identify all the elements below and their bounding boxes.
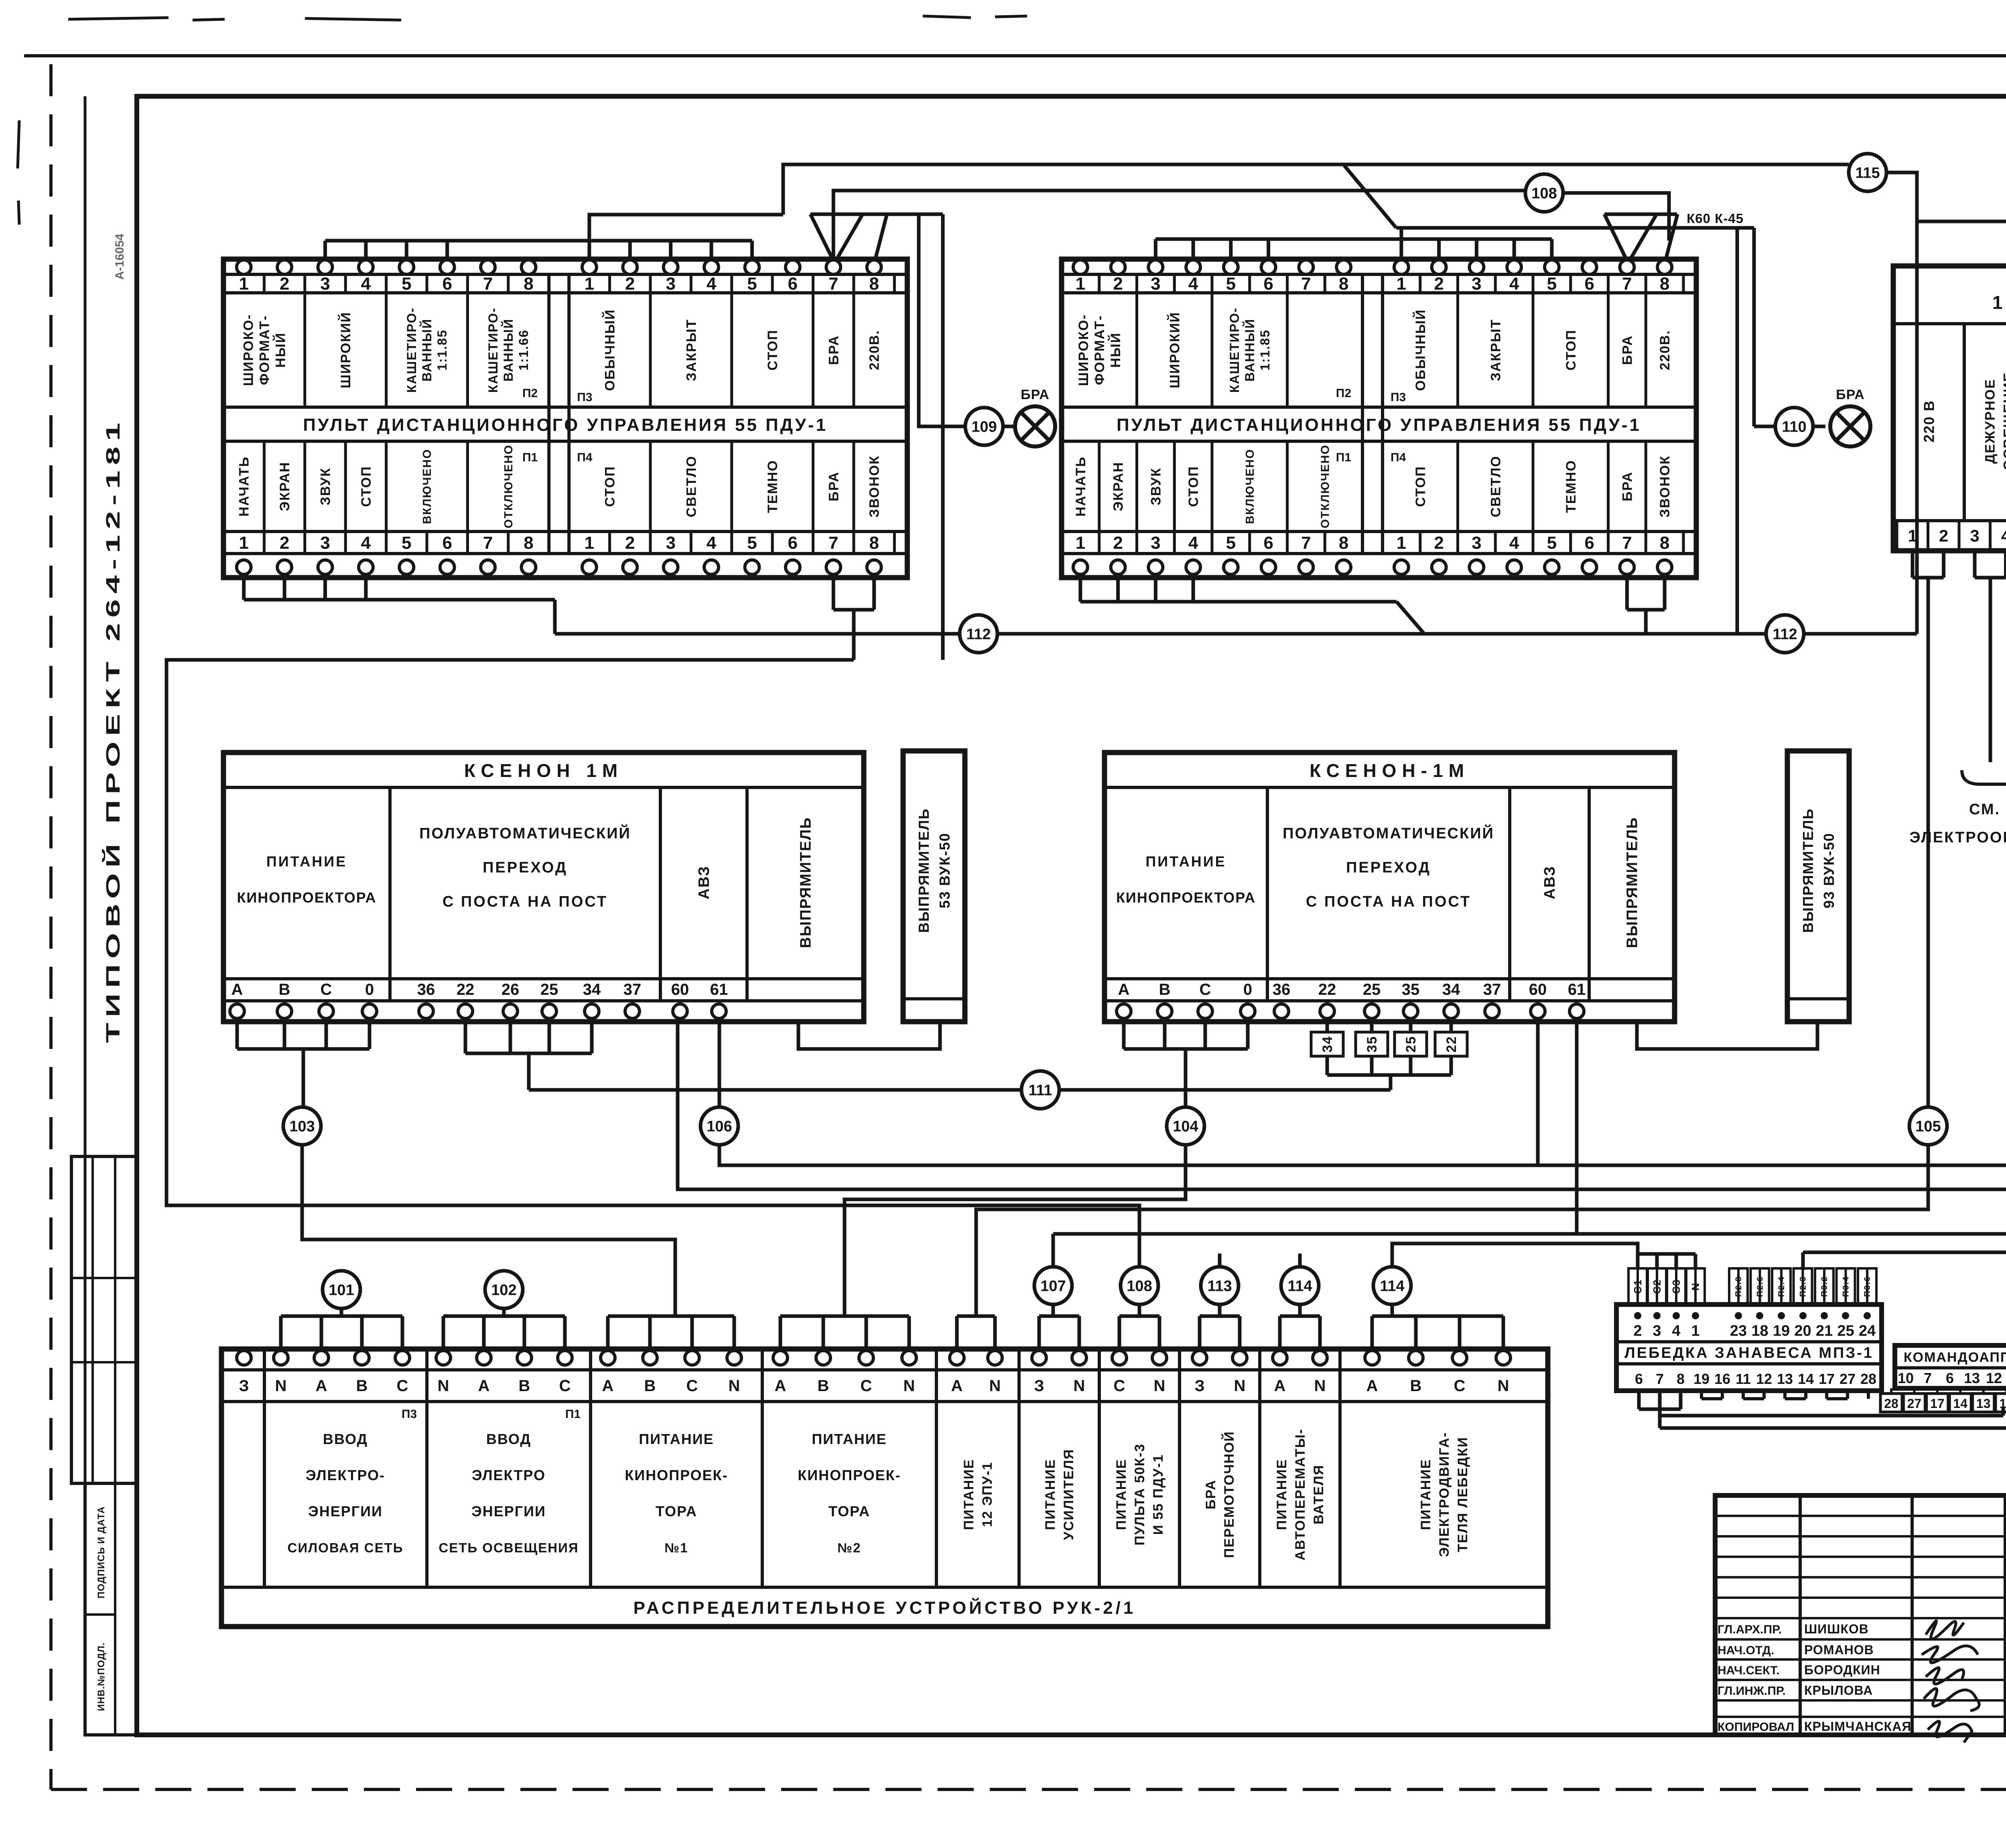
svg-text:28: 28 [1884,1396,1898,1411]
svg-text:КАШЕТИРО-: КАШЕТИРО- [404,307,419,393]
bus drop [405,241,408,262]
svg-text:6: 6 [1263,533,1273,553]
cable funnel PDU1 [810,214,833,261]
svg-text:ВЫПРЯМИТЕЛЬ: ВЫПРЯМИТЕЛЬ [916,808,932,933]
svg-text:АВЗ: АВЗ [696,866,713,899]
svg-text:ЭЛЕКТРО: ЭЛЕКТРО [472,1467,546,1483]
svg-text:25: 25 [1363,981,1381,998]
svg-text:1: 1 [239,533,248,553]
wire rectifier link 2 [1637,1022,1817,1049]
svg-text:3: 3 [666,274,675,294]
svg-text:ПИТАНИЕ: ПИТАНИЕ [1145,853,1226,870]
node 114 [1373,1267,1411,1304]
PDU1 bottom labels [237,456,252,516]
RUK bracket section 10 / 114 [1370,1316,1374,1351]
svg-text:ВАННЫЙ: ВАННЫЙ [1243,318,1257,381]
svg-text:19: 19 [1693,1371,1710,1387]
wire to command app 1 [1660,1414,2003,1418]
svg-text:3: 3 [320,533,330,553]
svg-text:КИНОПРОЕКТОРА: КИНОПРОЕКТОРА [237,889,376,906]
svg-text:БРА: БРА [1620,471,1635,501]
PDU2 cell separators [1098,274,1100,293]
svg-text:ТИПОВОЙ ПРОЕКТ 264-12-181: ТИПОВОЙ ПРОЕКТ 264-12-181 [102,417,124,1043]
stub [1116,578,1120,602]
svg-text:ПУЛЬТ ДИСТАНЦИОННОГО УПРАВЛЕ: ПУЛЬТ ДИСТАНЦИОННОГО УПРАВЛЕНИЯ 55 ПДУ-1 [1117,415,1641,435]
svg-text:18: 18 [1751,1323,1768,1339]
svg-text:С ПОСТА НА ПОСТ: С ПОСТА НА ПОСТ [443,893,608,910]
svg-text:34: 34 [1442,981,1460,998]
svg-text:N: N [729,1377,740,1395]
svg-text:34: 34 [1320,1036,1335,1053]
svg-text:C: C [686,1377,698,1395]
wire bracket A B C 0 ksenon2 [1122,1018,1126,1049]
node 114 [1281,1267,1319,1304]
wire PDU1 right flank to bottom bus [941,214,945,660]
svg-text:КИНОПРОЕК-: КИНОПРОЕК- [798,1467,901,1483]
bracket PDU2 bottom bra terminals [1625,578,1629,610]
svg-text:СТОП: СТОП [1186,466,1201,507]
wire down to lamp 110 [1752,228,1756,426]
node 107 [1034,1267,1072,1304]
RUK bracket section 6 / 107 [1038,1316,1041,1351]
wire drop to P2.3 label [1801,1252,1805,1270]
svg-text:ВАННЫЙ: ВАННЫЙ [501,318,516,381]
svg-text:4: 4 [707,533,717,553]
svg-text:П3: П3 [402,1408,417,1421]
svg-text:2: 2 [280,274,289,294]
svg-text:5: 5 [1226,533,1236,553]
svg-text:22: 22 [1318,981,1336,998]
svg-text:C: C [559,1377,571,1395]
winch bottom wires [1637,1391,1641,1409]
svg-text:112: 112 [966,626,991,643]
wire break slash [1344,165,1396,228]
svg-text:A: A [1366,1377,1378,1395]
margin table A [71,1156,137,1483]
svg-text:ПУЛЬТ ДИСТАНЦИОННОГО УПРАВЛЕ: ПУЛЬТ ДИСТАНЦИОННОГО УПРАВЛЕНИЯ 55 ПДУ-1 [303,415,828,435]
svg-text:21: 21 [1816,1323,1833,1339]
svg-text:1: 1 [585,274,594,294]
wire 111 run [529,1088,1391,1092]
PDU2 bottom labels [1073,456,1088,516]
projector unit КСЕНОН 1М outline [223,753,864,1022]
svg-text:101: 101 [329,1282,354,1298]
PDU1 cell separators [263,274,266,293]
svg-text:З: З [239,1377,249,1395]
svg-text:ЭЛЕКТРООБОРУДОВАНИЯ: ЭЛЕКТРООБОРУДОВАНИЯ [1909,829,2006,846]
svg-text:ПЕРЕХОД: ПЕРЕХОД [1346,859,1431,876]
node 104 [1167,1107,1204,1145]
svg-text:П1: П1 [1336,451,1351,464]
brace see electrical project [1962,770,2006,796]
svg-text:0: 0 [1243,981,1252,998]
svg-text:П2: П2 [1336,387,1351,400]
svg-text:ТЕМНО: ТЕМНО [1563,460,1579,513]
svg-text:БРА: БРА [1203,1479,1218,1509]
svg-text:ШИШКОВ: ШИШКОВ [1804,1622,1869,1636]
svg-text:БОРОДКИН: БОРОДКИН [1804,1663,1880,1677]
svg-text:ЭКРАН: ЭКРАН [277,462,292,511]
svg-text:ВВОД: ВВОД [486,1431,531,1447]
svg-text:112: 112 [1773,626,1797,643]
svg-text:8: 8 [524,274,533,294]
svg-text:5: 5 [747,533,757,553]
svg-text:ОСВЕЩЕНИЕ: ОСВЕЩЕНИЕ [2001,372,2006,470]
PDU2 bottom terminal circles [1073,560,1088,574]
bus drop [445,241,449,262]
svg-text:19: 19 [1773,1323,1790,1339]
bracket PDU1 bottom bra terminals [832,578,835,610]
svg-text:ЗВУК: ЗВУК [1148,467,1163,505]
node 113 [1201,1267,1239,1304]
RUK bracket section 7 / 108 [1118,1316,1121,1351]
svg-text:60: 60 [1529,981,1547,998]
bus drop [1192,239,1195,262]
wire ksenon2 t61 / 107 feed [1577,1018,2006,1274]
wire bracket A B C 0 ksenon1 [236,1018,239,1049]
svg-text:A: A [775,1377,786,1395]
svg-text:4: 4 [1672,1323,1680,1339]
svg-text:НЫЙ: НЫЙ [1108,332,1123,367]
stub [323,578,327,600]
svg-text:8: 8 [524,533,533,553]
bus drop [1513,239,1516,262]
svg-text:ПУЛЬТА 50К-3: ПУЛЬТА 50К-3 [1132,1443,1147,1546]
RUK bracket section 8 / 113 [1198,1316,1202,1351]
svg-text:ЭЛЕКТРОДВИГА-: ЭЛЕКТРОДВИГА- [1437,1432,1452,1557]
wire to lamp 109 [919,214,965,426]
svg-text:А: А [951,1377,963,1395]
svg-text:ВКЛЮЧЕНО: ВКЛЮЧЕНО [421,449,434,524]
svg-text:N: N [1074,1377,1085,1395]
svg-text:ЭНЕРГИИ: ЭНЕРГИИ [308,1503,383,1519]
bus drop [628,241,632,262]
svg-text:ВВОД: ВВОД [323,1431,368,1447]
svg-text:12 ЭПУ-1: 12 ЭПУ-1 [980,1462,995,1527]
svg-text:ОБЫЧНЫЙ: ОБЫЧНЫЙ [602,309,618,391]
svg-text:8: 8 [1660,274,1669,294]
slant into t8 [875,214,887,261]
svg-text:N: N [904,1377,915,1395]
svg-text:2: 2 [1113,274,1123,294]
wire 103 lower [302,1145,675,1316]
svg-text:2: 2 [1939,526,1948,545]
svg-text:B: B [1410,1377,1422,1395]
node 101 [323,1271,360,1308]
bus drop [323,241,327,262]
svg-text:108: 108 [1531,185,1557,202]
RUK bracket section 3 [606,1316,610,1351]
svg-text:7: 7 [483,274,493,294]
riser [553,600,557,634]
slant into t8 PDU2 [1665,214,1677,261]
margin column [84,96,87,1735]
svg-text:П3: П3 [1391,391,1406,404]
svg-text:КРЫЛОВА: КРЫЛОВА [1804,1683,1873,1698]
svg-text:СТОП: СТОП [359,466,374,507]
node 112 [960,615,997,653]
svg-text:115: 115 [1855,164,1880,181]
svg-text:17: 17 [1819,1371,1835,1387]
svg-text:103: 103 [289,1118,315,1135]
svg-text:ЗВОНОК: ЗВОНОК [1657,455,1673,517]
svg-text:61: 61 [1568,981,1586,998]
outer border bottom dashed [51,1788,2006,1791]
svg-text:ПОЛУАВТОМАТИЧЕСКИЙ: ПОЛУАВТОМАТИЧЕСКИЙ [419,824,631,842]
svg-text:A: A [602,1377,614,1395]
svg-text:8: 8 [1339,533,1348,553]
svg-text:1: 1 [1397,533,1406,553]
node 106 [700,1107,738,1145]
svg-text:2: 2 [1113,533,1123,553]
svg-text:ПИТАНИЕ: ПИТАНИЕ [266,853,347,870]
svg-text:25: 25 [1403,1036,1419,1053]
svg-text:5: 5 [1547,533,1557,553]
svg-text:ЗВОНОК: ЗВОНОК [867,455,882,517]
svg-text:ЭЛЕКТРО-: ЭЛЕКТРО- [306,1467,385,1483]
svg-text:13: 13 [1976,1396,1991,1411]
svg-text:ВЫПРЯМИТЕЛЬ: ВЫПРЯМИТЕЛЬ [798,817,814,948]
svg-text:3: 3 [1970,526,1979,545]
svg-text:5: 5 [747,274,757,294]
svg-text:C: C [397,1377,408,1395]
svg-text:C: C [1114,1377,1125,1395]
svg-text:1: 1 [1691,1323,1699,1339]
node 109 [965,408,1003,445]
svg-text:ВАННЫЙ: ВАННЫЙ [420,318,434,381]
svg-text:4: 4 [707,274,717,294]
svg-text:1:1.85: 1:1.85 [435,329,449,371]
svg-text:13: 13 [1777,1371,1793,1387]
wire bus PDU1 top g2t1 [589,215,783,261]
svg-text:ДЕЖУРНОЕ: ДЕЖУРНОЕ [1983,379,1998,464]
svg-text:ШИРОКИЙ: ШИРОКИЙ [338,312,353,388]
wire 105 lower [976,1145,1928,1316]
funnel cap 2 [1604,213,1677,216]
svg-text:B: B [279,981,290,998]
svg-text:N: N [1314,1377,1326,1395]
svg-text:ОТКЛЮЧЕНО: ОТКЛЮЧЕНО [1319,444,1332,528]
svg-text:37: 37 [1483,981,1501,998]
svg-text:АВЗ: АВЗ [1541,866,1558,899]
wire bracket 22-34 ksenon1 [464,1018,467,1053]
winch curtain MPZ-1 [1616,1304,1882,1391]
PDU2 top labels [1076,314,1123,386]
svg-text:7: 7 [483,533,493,553]
svg-text:КИНОПРОЕК-: КИНОПРОЕК- [625,1467,728,1483]
bus drop [669,241,672,262]
svg-text:107: 107 [1040,1278,1066,1294]
svg-text:1: 1 [239,274,248,294]
rectifier 93 VUK-50 [1787,751,1849,1022]
svg-text:35: 35 [1402,981,1420,998]
svg-text:N: N [989,1377,1001,1395]
rectifier 53 VUK-50 [903,751,965,1022]
svg-text:3: 3 [1653,1323,1661,1339]
svg-text:А-16054: А-16054 [113,233,126,280]
bus drop [710,241,713,262]
bus drop [1550,239,1553,262]
svg-text:1:1.85: 1:1.85 [1258,329,1272,371]
svg-text:B: B [1159,981,1171,998]
svg-text:СВЕТЛО: СВЕТЛО [1488,455,1503,517]
svg-text:A: A [316,1377,327,1395]
svg-text:12: 12 [1756,1371,1772,1387]
svg-text:114: 114 [1287,1278,1312,1294]
svg-text:4: 4 [1509,274,1519,294]
svg-text:ПЕРЕМОТОЧНОЙ: ПЕРЕМОТОЧНОЙ [1221,1431,1237,1558]
svg-text:ФОРМАТ-: ФОРМАТ- [1092,315,1107,385]
svg-text:34: 34 [583,981,601,998]
svg-text:7: 7 [1622,274,1632,294]
svg-text:С ПОСТА НА ПОСТ: С ПОСТА НА ПОСТ [1306,893,1471,910]
svg-text:53 ВУК-50: 53 ВУК-50 [936,832,953,908]
svg-text:60: 60 [671,981,689,998]
svg-text:5: 5 [1547,274,1557,294]
node 105 [1909,1107,1947,1145]
node 112 [1766,615,1804,653]
svg-text:102: 102 [491,1282,516,1298]
svg-text:1: 1 [1076,533,1085,553]
svg-text:0: 0 [365,981,374,998]
PDU2 console 55 PDU-1 outline [1062,259,1696,578]
svg-text:П1: П1 [565,1408,581,1421]
winch P labels [1729,1268,1748,1304]
svg-text:B: B [356,1377,368,1395]
svg-text:ПИТАНИЕ: ПИТАНИЕ [639,1431,714,1447]
svg-text:17: 17 [1930,1396,1945,1411]
svg-text:25: 25 [540,981,558,998]
svg-text:НАЧ.СЕКТ.: НАЧ.СЕКТ. [1718,1664,1779,1677]
svg-text:КСЕНОН 1М: КСЕНОН 1М [464,760,623,781]
margin vertical text project [102,417,124,1043]
svg-text:СВЕТЛО: СВЕТЛО [684,455,699,517]
svg-text:6: 6 [1946,1370,1954,1386]
svg-text:25: 25 [1837,1323,1854,1339]
torn edge marks [18,16,1027,225]
svg-text:12: 12 [1986,1370,2002,1386]
svg-text:12 ЭПУ-1: 12 ЭПУ-1 [1992,292,2006,313]
PDU1 top labels [241,314,288,386]
svg-text:ПИТАНИЕ: ПИТАНИЕ [961,1459,977,1530]
wire 12EPU t3 t4 bracket [1973,551,1977,578]
svg-text:7: 7 [1656,1371,1664,1387]
svg-text:П2: П2 [522,387,538,400]
svg-text:220В.: 220В. [867,330,882,370]
svg-text:36: 36 [1273,981,1291,998]
svg-text:220 В: 220 В [1921,400,1937,442]
svg-text:РОМАНОВ: РОМАНОВ [1804,1643,1874,1657]
svg-text:106: 106 [707,1118,732,1135]
svg-text:СТОП: СТОП [1413,466,1428,507]
jog [1397,602,1424,634]
stub [283,578,286,600]
svg-text:ВАТЕЛЯ: ВАТЕЛЯ [1311,1465,1326,1524]
bracket over C labels [1638,1252,1695,1256]
svg-text:3: 3 [1151,274,1160,294]
svg-text:B: B [644,1377,656,1395]
svg-text:5: 5 [402,274,411,294]
svg-text:22: 22 [1444,1036,1459,1053]
svg-text:6: 6 [1635,1371,1643,1387]
svg-text:ЗАКРЫТ: ЗАКРЫТ [1488,319,1503,381]
margin table B [85,1483,137,1735]
svg-text:БРА: БРА [826,335,841,365]
node 103 [283,1107,321,1145]
svg-text:1: 1 [585,533,594,553]
svg-text:ПОЛУАВТОМАТИЧЕСКИЙ: ПОЛУАВТОМАТИЧЕСКИЙ [1283,824,1494,842]
svg-text:B: B [818,1377,829,1395]
svg-text:36: 36 [417,981,435,998]
RUK bracket section 9 / 114 [1278,1316,1282,1351]
svg-text:ЛЕБЕДКА ЗАНАВЕСА МПЗ-1: ЛЕБЕДКА ЗАНАВЕСА МПЗ-1 [1624,1345,1874,1361]
svg-text:27: 27 [1840,1371,1856,1387]
svg-text:3: 3 [320,274,330,294]
svg-text:7: 7 [1301,274,1311,294]
lamp bra 2 [1830,406,1870,446]
svg-text:КСЕНОН-1М: КСЕНОН-1М [1310,760,1470,781]
stub [1154,578,1157,602]
svg-text:СТОП: СТОП [1563,329,1579,371]
svg-text:114: 114 [1380,1278,1404,1294]
lamp bra 1 [1015,406,1055,446]
svg-text:ВЫПРЯМИТЕЛЬ: ВЫПРЯМИТЕЛЬ [1800,808,1816,933]
svg-text:4: 4 [1188,274,1198,294]
wire ksenon2 t60 [1536,1018,1540,1165]
outer border left dashed [49,64,53,1789]
wire bus PDU2 g2t1 drop [1399,228,1403,262]
wire rectifier link 1 [798,1022,940,1049]
projector unit КСЕНОН-1М outline [1105,753,1675,1022]
bus drop [364,241,367,262]
bus drop [1475,239,1478,262]
cable funnel PDU2 [1604,214,1627,261]
svg-text:3: 3 [1472,533,1481,553]
svg-text:РАСПРЕДЕЛИТЕЛЬНОЕ УСТРОЙСТВ: РАСПРЕДЕЛИТЕЛЬНОЕ УСТРОЙСТВО РУК-2/1 [633,1597,1136,1618]
svg-text:ОТКЛЮЧЕНО: ОТКЛЮЧЕНО [502,444,515,528]
svg-text:СИЛОВАЯ СЕТЬ: СИЛОВАЯ СЕТЬ [288,1540,404,1555]
svg-text:2: 2 [1434,274,1444,294]
svg-text:ЭНЕРГИИ: ЭНЕРГИИ [471,1503,546,1519]
svg-text:ВЫПРЯМИТЕЛЬ: ВЫПРЯМИТЕЛЬ [1624,817,1641,948]
RUK bracket section 4 [779,1316,782,1351]
svg-text:113: 113 [1207,1278,1232,1294]
svg-text:АВТОПЕРЕМАТЫ-: АВТОПЕРЕМАТЫ- [1293,1428,1308,1560]
svg-text:6: 6 [1584,533,1594,553]
bus drop [1229,239,1232,262]
svg-text:ПИТАНИЕ: ПИТАНИЕ [1418,1459,1433,1530]
svg-text:П4: П4 [1391,451,1406,464]
svg-text:B: B [519,1377,530,1395]
wire K60 K-45 [1396,226,1754,230]
svg-text:6: 6 [788,533,798,553]
svg-text:A: A [1118,981,1130,998]
svg-text:27: 27 [1907,1396,1922,1411]
node 108 [1121,1267,1158,1304]
svg-text:ПЕРЕХОД: ПЕРЕХОД [483,859,568,876]
svg-text:6: 6 [1263,274,1273,294]
svg-text:7: 7 [1301,533,1311,553]
svg-text:ШИРОКО-: ШИРОКО- [241,314,256,386]
svg-text:12: 12 [1999,1396,2006,1411]
svg-text:8: 8 [1339,274,1348,294]
svg-text:1: 1 [1908,526,1917,545]
wire 108 lower run [166,660,1139,1316]
svg-text:И 55 ПДУ-1: И 55 ПДУ-1 [1151,1454,1166,1535]
PDU1 top terminal circles [237,260,251,274]
svg-text:СМ. ПРОЕКТ: СМ. ПРОЕКТ [1969,801,2006,818]
svg-text:10: 10 [1898,1370,1914,1386]
